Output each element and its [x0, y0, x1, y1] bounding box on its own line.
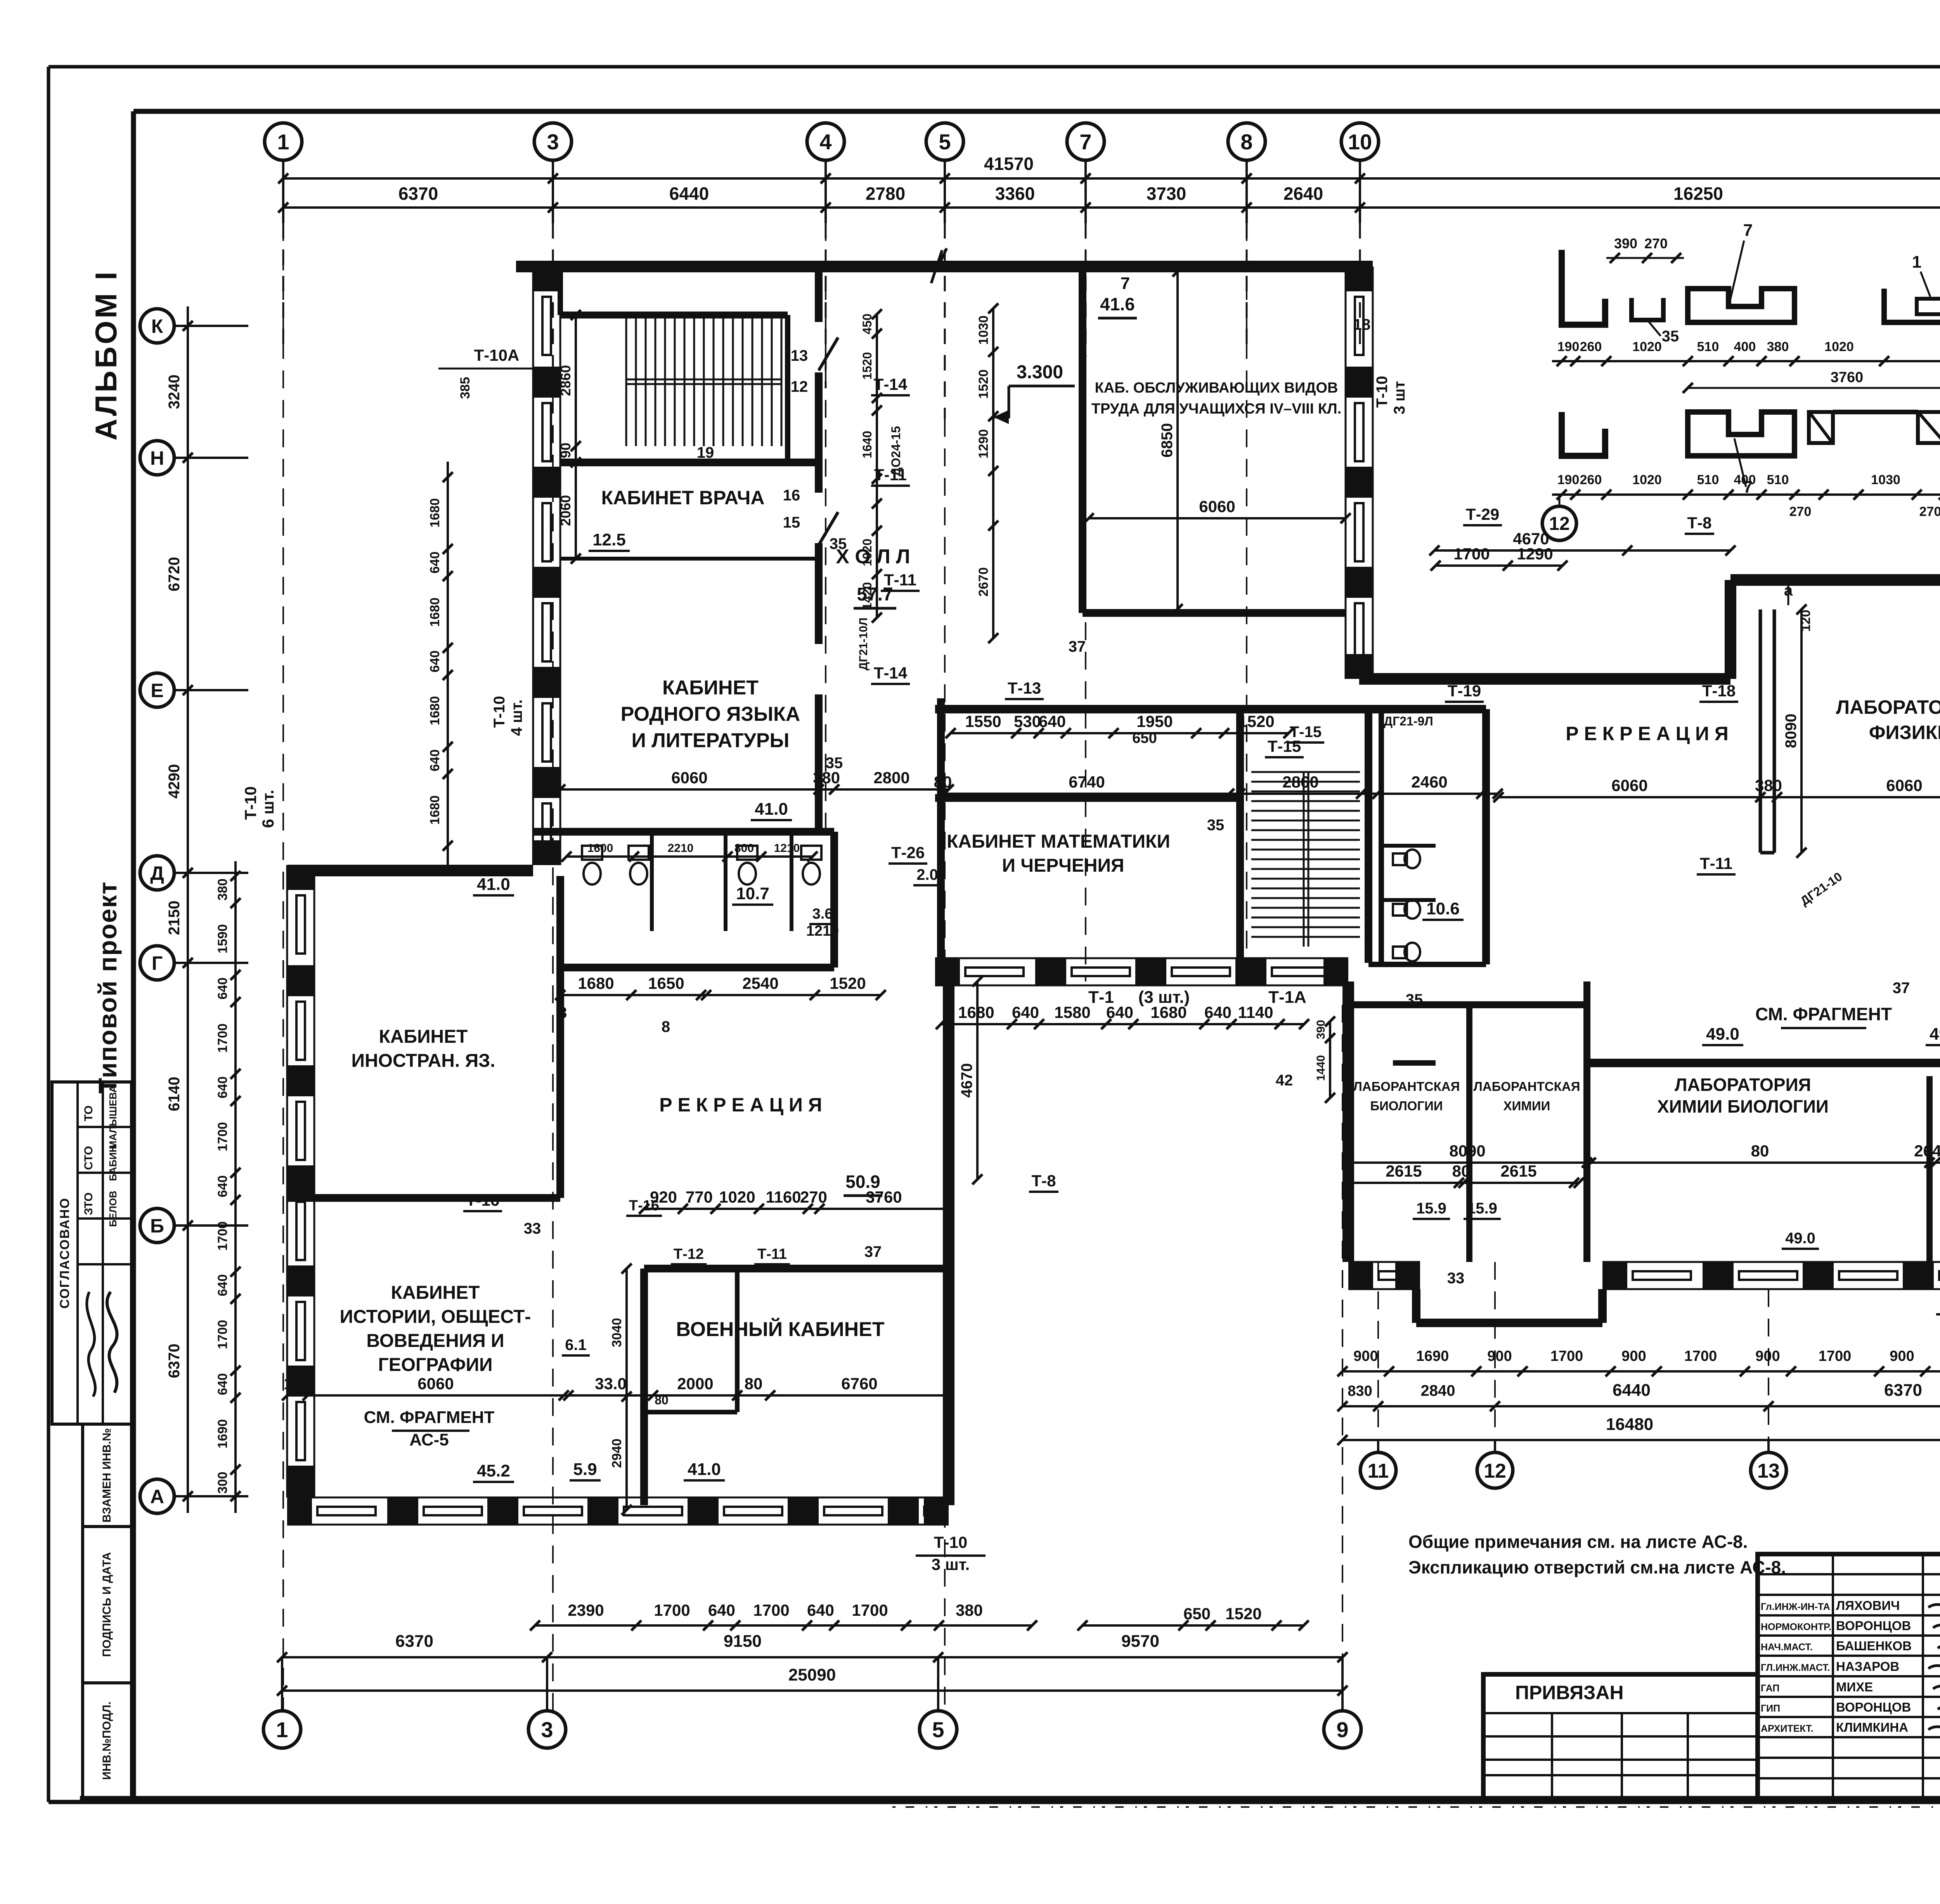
svg-text:НОРМОКОНТР.: НОРМОКОНТР.: [1761, 1622, 1831, 1632]
svg-text:Гл.ИНЖ-ИН-ТА: Гл.ИНЖ-ИН-ТА: [1761, 1601, 1830, 1612]
WC2 partition b: [1381, 898, 1436, 902]
svg-text:80: 80: [1751, 1142, 1769, 1160]
svg-text:Т-15: Т-15: [1290, 724, 1322, 741]
wall: top of лаборантские rooms: [1348, 1001, 1587, 1008]
svg-text:ТО: ТО: [82, 1106, 95, 1122]
dim: лаборантские top offsets: [1329, 1021, 1331, 1098]
grid bubble 5 (top): [926, 123, 963, 160]
grid bubble 3 (bottom): [528, 1711, 566, 1748]
svg-text:8: 8: [558, 1004, 567, 1021]
wall: south corridor of right section: [1587, 1059, 1940, 1067]
svg-text:3.300: 3.300: [1017, 362, 1063, 383]
svg-text:Т-18: Т-18: [1702, 682, 1736, 700]
svg-text:БИОЛОГИИ: БИОЛОГИИ: [1370, 1099, 1443, 1113]
signature scribble: [107, 1292, 117, 1393]
svg-text:ФИЗИКИ: ФИЗИКИ: [1869, 722, 1940, 743]
grid bubble Г (left): [140, 946, 174, 980]
svg-text:1700: 1700: [1819, 1348, 1852, 1364]
svg-text:8: 8: [662, 1018, 670, 1035]
svg-text:390: 390: [1614, 235, 1637, 251]
svg-text:41.0: 41.0: [688, 1460, 721, 1479]
svg-text:(3 шт.): (3 шт.): [1138, 988, 1190, 1007]
svg-text:380: 380: [956, 1601, 983, 1619]
svg-text:АРХИТЕКТ.: АРХИТЕКТ.: [1761, 1723, 1814, 1734]
svg-text:Т-1А: Т-1А: [1268, 988, 1306, 1007]
wall: east of stairwell 2: [1365, 709, 1372, 963]
grid bubble К (left): [140, 309, 174, 343]
svg-text:15: 15: [783, 514, 800, 531]
top dimension line (total 41570): [283, 177, 1940, 180]
wall: east of WC block (left): [830, 832, 838, 968]
svg-text:190: 190: [1557, 339, 1580, 354]
svg-text:Т-10: Т-10: [934, 1533, 967, 1551]
svg-text:1950: 1950: [1136, 712, 1173, 730]
svg-text:ПРИВЯЗАН: ПРИВЯЗАН: [1515, 1682, 1624, 1703]
svg-text:640: 640: [708, 1601, 735, 1619]
dim: courtyard height: [976, 981, 979, 1179]
svg-text:1520: 1520: [976, 369, 991, 399]
wall: west of кабинет математики: [937, 698, 945, 958]
svg-text:35: 35: [1207, 817, 1225, 834]
exterior wall: small south protrusion: [1598, 1289, 1607, 1323]
svg-text:1: 1: [277, 130, 289, 154]
svg-text:33.0: 33.0: [595, 1374, 627, 1393]
svg-text:2670: 2670: [976, 567, 991, 597]
svg-text:1680: 1680: [428, 696, 442, 725]
grid bubble 11 (bottom right): [1360, 1452, 1396, 1488]
svg-text:13: 13: [791, 347, 808, 364]
svg-text:1600: 1600: [587, 842, 613, 855]
exterior wall with windows: south wall of middle section (Т-1 band): [935, 957, 1348, 959]
dim line under 2 этаж detail: [1552, 360, 1940, 362]
svg-text:1640: 1640: [860, 431, 874, 458]
svg-text:2000: 2000: [677, 1374, 713, 1393]
title block: signature table: [1758, 1554, 1940, 1798]
svg-text:Р Е К Р Е А Ц И Я: Р Е К Р Е А Ц И Я: [1566, 723, 1729, 744]
svg-text:2615: 2615: [1386, 1162, 1422, 1180]
svg-text:6440: 6440: [669, 183, 709, 204]
svg-text:15.9: 15.9: [1467, 1200, 1497, 1217]
svg-text:35: 35: [1406, 991, 1423, 1008]
svg-text:НАЗАРОВ: НАЗАРОВ: [1836, 1659, 1899, 1674]
drawing frame bottom: [80, 1796, 1940, 1801]
svg-text:1520: 1520: [1225, 1605, 1261, 1623]
vertical dim column right of upper-left block: [876, 314, 878, 618]
svg-text:4: 4: [819, 130, 831, 154]
left secondary dim column: [234, 861, 237, 1513]
svg-text:35: 35: [1662, 328, 1679, 345]
svg-text:1680: 1680: [578, 974, 614, 992]
svg-text:1690: 1690: [215, 1419, 230, 1449]
svg-text:7: 7: [1743, 221, 1753, 240]
sheet outer border left: [47, 67, 50, 1802]
svg-text:640: 640: [1039, 712, 1066, 730]
svg-text:2390: 2390: [568, 1601, 604, 1619]
svg-text:11: 11: [1368, 1460, 1389, 1482]
svg-text:2060: 2060: [558, 495, 573, 526]
dim: военный west heights: [625, 1269, 628, 1510]
svg-text:1700: 1700: [1453, 545, 1490, 563]
svg-text:Р Е К Р Е А Ц И Я: Р Е К Р Е А Ц И Я: [659, 1094, 822, 1116]
dim small right: [1436, 564, 1562, 567]
svg-text:770: 770: [686, 1188, 713, 1206]
svg-text:2640: 2640: [1914, 1142, 1940, 1160]
svg-text:5.9: 5.9: [573, 1460, 597, 1479]
svg-text:10: 10: [1348, 130, 1372, 154]
wall: лаборантская химии / лаборатория: [1583, 981, 1590, 1262]
svg-text:50.9: 50.9: [845, 1172, 880, 1192]
exterior wall: top facade of upper-left/middle blocks: [516, 261, 1373, 272]
svg-text:400: 400: [1734, 339, 1756, 354]
svg-text:1020: 1020: [1632, 339, 1662, 354]
svg-text:2.0: 2.0: [916, 866, 938, 883]
svg-text:Б: Б: [150, 1215, 164, 1237]
svg-text:6850: 6850: [1159, 423, 1176, 458]
svg-text:41.6: 41.6: [1100, 294, 1135, 314]
svg-text:ТРУДА ДЛЯ УЧАЩИХСЯ IV–VIII КЛ.: ТРУДА ДЛЯ УЧАЩИХСЯ IV–VIII КЛ.: [1091, 401, 1342, 417]
svg-text:6140: 6140: [166, 1077, 183, 1111]
svg-text:1550: 1550: [965, 712, 1001, 730]
svg-text:Типовой проект: Типовой проект: [93, 881, 122, 1094]
svg-text:Т-12: Т-12: [674, 1246, 704, 1262]
exterior wall with windows: west facade of left wing: [286, 865, 288, 1497]
svg-text:Т-26: Т-26: [891, 843, 925, 862]
svg-text:530: 530: [1014, 712, 1041, 730]
svg-text:390: 390: [1315, 1020, 1327, 1039]
svg-text:1020: 1020: [1632, 473, 1662, 487]
svg-text:1290: 1290: [1517, 545, 1553, 563]
dim: right section widths: [1498, 796, 1940, 798]
svg-text:5: 5: [932, 1717, 944, 1742]
svg-text:9: 9: [1336, 1717, 1348, 1742]
svg-text:900: 900: [1890, 1348, 1914, 1364]
svg-text:АС-5: АС-5: [409, 1430, 449, 1449]
svg-text:1520: 1520: [860, 352, 874, 379]
svg-text:41.0: 41.0: [477, 875, 510, 894]
svg-text:1210: 1210: [806, 923, 839, 939]
svg-text:6370: 6370: [166, 1344, 183, 1378]
svg-text:3 шт: 3 шт: [1391, 381, 1408, 414]
dim: каб.обслуживающих width: [1089, 517, 1346, 519]
svg-text:80: 80: [745, 1374, 763, 1393]
svg-text:ИСТОРИИ, ОБЩЕСТ-: ИСТОРИИ, ОБЩЕСТ-: [340, 1307, 531, 1327]
svg-text:12: 12: [791, 378, 808, 395]
svg-text:ДО24-15: ДО24-15: [889, 426, 903, 476]
svg-text:640: 640: [807, 1601, 834, 1619]
svg-text:2840: 2840: [1421, 1382, 1455, 1399]
svg-text:3: 3: [547, 130, 559, 154]
svg-text:1520: 1520: [830, 974, 866, 992]
dim line under 1 этаж detail: [1552, 493, 1940, 496]
dim: лаборантские widths: [1348, 1182, 1579, 1184]
wall: top of военный кабинет: [644, 1265, 949, 1272]
wall: лаборатория / лаборант.физики: [1926, 1076, 1933, 1262]
svg-text:3760: 3760: [1831, 369, 1864, 386]
svg-text:3.6: 3.6: [812, 906, 833, 922]
svg-text:2860: 2860: [1282, 773, 1318, 791]
svg-text:6.1: 6.1: [565, 1336, 587, 1354]
dim: военный top band: [644, 1208, 949, 1210]
svg-text:СТО: СТО: [82, 1146, 95, 1170]
grid bubble 12 (bottom right): [1477, 1452, 1513, 1488]
svg-text:Т-16: Т-16: [629, 1198, 659, 1214]
svg-text:650: 650: [1132, 730, 1157, 746]
wall: лаборантская биологии / химии: [1466, 1005, 1472, 1262]
svg-text:640: 640: [215, 1373, 230, 1395]
wall: south of каб.обслуживающих: [1083, 609, 1346, 617]
svg-text:2540: 2540: [742, 974, 778, 992]
wall: between кабинет иностран and рекреация: [556, 876, 564, 1198]
dim: partition height right section: [1800, 609, 1803, 853]
exterior wall with windows: east wall of каб.обслуживающих: [1345, 267, 1347, 679]
partition below кабинет врача: [560, 557, 819, 561]
svg-text:1290: 1290: [976, 429, 991, 459]
exterior wall: west wall of labs row: [1342, 981, 1354, 1262]
svg-text:800: 800: [734, 842, 754, 855]
grid dashed lines through plan: [282, 223, 284, 1711]
svg-text:49.0: 49.0: [1930, 1025, 1940, 1044]
svg-text:9150: 9150: [724, 1632, 762, 1651]
svg-text:41.0: 41.0: [755, 800, 788, 819]
grid bubble Б (left): [140, 1208, 174, 1243]
dim: 4670 right section top: [1434, 549, 1730, 552]
svg-text:80: 80: [1452, 1162, 1471, 1180]
svg-text:И ЧЕРЧЕНИЯ: И ЧЕРЧЕНИЯ: [1002, 855, 1124, 876]
bottom dim row (window dims left building): [535, 1624, 1032, 1627]
svg-text:Х О Л Л: Х О Л Л: [836, 545, 910, 568]
svg-text:БАШЕНКОВ: БАШЕНКОВ: [1836, 1639, 1912, 1653]
svg-text:Т-29: Т-29: [1466, 505, 1499, 523]
svg-text:Т-11: Т-11: [757, 1246, 787, 1262]
svg-text:35: 35: [826, 755, 843, 772]
break mark on top wall: [931, 248, 947, 283]
svg-text:И ЛИТЕРАТУРЫ: И ЛИТЕРАТУРЫ: [632, 729, 790, 752]
svg-text:640: 640: [1204, 1003, 1232, 1021]
svg-text:640: 640: [215, 978, 230, 1000]
svg-text:16480: 16480: [1606, 1415, 1653, 1434]
svg-text:37: 37: [1069, 638, 1086, 655]
svg-text:КЛИМКИНА: КЛИМКИНА: [1836, 1720, 1908, 1734]
svg-text:Т-16: Т-16: [466, 1191, 499, 1209]
svg-text:ИНВ.№ПОДЛ.: ИНВ.№ПОДЛ.: [100, 1701, 113, 1780]
svg-text:35: 35: [830, 535, 847, 552]
exterior wall: top of right section (west part): [1359, 673, 1730, 685]
drawing frame top: [133, 109, 1940, 114]
svg-text:640: 640: [428, 552, 442, 574]
left dimension column (letter spacing dims): [187, 306, 189, 1513]
svg-text:КАБИНЕТ: КАБИНЕТ: [391, 1283, 480, 1303]
svg-text:ЛАБОРАТОРИЯ: ЛАБОРАТОРИЯ: [1675, 1075, 1811, 1095]
svg-text:1650: 1650: [648, 974, 684, 992]
svg-text:1030: 1030: [1871, 473, 1900, 487]
svg-text:Т-14: Т-14: [874, 664, 908, 682]
svg-text:120: 120: [1798, 610, 1813, 632]
dim: WC partitions: [566, 855, 812, 858]
wall: stair1 west vestibule: [558, 267, 563, 315]
svg-text:1020: 1020: [719, 1188, 755, 1206]
svg-text:12: 12: [1484, 1460, 1506, 1482]
grid bubble 10 (top): [1341, 123, 1379, 160]
dim: left wing widths: [560, 788, 949, 791]
svg-text:Т-1: Т-1: [1088, 988, 1114, 1007]
svg-text:Т-10: Т-10: [491, 696, 508, 728]
svg-text:6 шт.: 6 шт.: [259, 790, 277, 828]
bottom dim row (6370 | 9150 | 9570): [282, 1656, 1342, 1658]
WC partition 3: [790, 832, 793, 931]
svg-text:3240: 3240: [166, 375, 183, 409]
svg-text:1210: 1210: [774, 842, 800, 855]
dim: WC row widths: [560, 994, 881, 996]
svg-text:Е: Е: [151, 680, 163, 701]
svg-text:5: 5: [939, 130, 951, 154]
grid bubble 5 (bottom): [920, 1711, 957, 1748]
svg-text:300: 300: [215, 1472, 230, 1494]
svg-text:ГЛ.ИНЖ.МАСТ.: ГЛ.ИНЖ.МАСТ.: [1761, 1662, 1830, 1673]
svg-text:42: 42: [1276, 1072, 1293, 1089]
svg-text:СМ. ФРАГМЕНТ: СМ. ФРАГМЕНТ: [364, 1408, 495, 1427]
sheet outer border top: [48, 65, 1940, 69]
svg-text:3040: 3040: [610, 1318, 624, 1347]
svg-text:КАБИНЕТ ВРАЧА: КАБИНЕТ ВРАЧА: [601, 487, 765, 509]
svg-text:1520: 1520: [1238, 712, 1274, 730]
svg-text:1690: 1690: [1416, 1348, 1449, 1364]
svg-text:16: 16: [783, 487, 800, 504]
wall: between кабинет иностран and кабинет истории: [287, 1194, 560, 1202]
svg-text:КАБИНЕТ: КАБИНЕТ: [662, 677, 759, 699]
svg-text:Т-11: Т-11: [1700, 854, 1732, 872]
WC fixtures middle block: [1393, 853, 1407, 865]
speckle line under title block: [892, 1806, 1940, 1808]
svg-text:Т-8: Т-8: [1687, 514, 1712, 532]
svg-text:8090: 8090: [1782, 714, 1800, 748]
svg-text:900: 900: [1487, 1348, 1512, 1364]
svg-text:650: 650: [1183, 1605, 1211, 1623]
sheet outer border bottom: [48, 1800, 1940, 1804]
grid bubble 1 (top): [265, 123, 302, 160]
svg-text:2460: 2460: [1411, 773, 1447, 791]
svg-text:6370: 6370: [395, 1632, 433, 1651]
grid bubble Е (left): [140, 673, 174, 707]
dim: каб.обслуживающих height: [1176, 272, 1179, 609]
wall: WC2 west: [1379, 709, 1384, 964]
exterior wall with windows: south facade of left wing: [287, 1497, 949, 1499]
svg-text:49.0: 49.0: [1785, 1230, 1815, 1247]
svg-text:Д: Д: [150, 862, 164, 884]
svg-text:ВОРОНЦОВ: ВОРОНЦОВ: [1836, 1700, 1911, 1714]
svg-text:СМ. ФРАГМЕНТ: СМ. ФРАГМЕНТ: [1755, 1004, 1892, 1024]
svg-text:Т-19: Т-19: [1448, 682, 1481, 700]
svg-text:ЛЯХОВИЧ: ЛЯХОВИЧ: [1836, 1598, 1900, 1613]
svg-text:450: 450: [860, 313, 874, 334]
grid bubble 8 (top): [1228, 123, 1265, 160]
svg-text:45.2: 45.2: [477, 1461, 510, 1480]
svg-text:900: 900: [1353, 1348, 1378, 1364]
svg-text:НАЧ.МАСТ.: НАЧ.МАСТ.: [1761, 1642, 1813, 1653]
svg-text:640: 640: [428, 749, 442, 772]
svg-text:10.7: 10.7: [736, 884, 769, 903]
svg-text:6720: 6720: [166, 557, 183, 592]
svg-text:1700: 1700: [753, 1601, 789, 1619]
svg-text:ИНОСТРАН. ЯЗ.: ИНОСТРАН. ЯЗ.: [352, 1051, 495, 1071]
svg-text:4670: 4670: [958, 1063, 975, 1098]
WC partition 1: [650, 832, 654, 931]
svg-text:СОГЛАСОВАНО: СОГЛАСОВАНО: [57, 1198, 72, 1309]
svg-text:ХИМИИ БИОЛОГИИ: ХИМИИ БИОЛОГИИ: [1657, 1096, 1829, 1116]
svg-text:1700: 1700: [215, 1023, 230, 1053]
svg-text:1700: 1700: [1684, 1348, 1717, 1364]
svg-text:6740: 6740: [1069, 773, 1105, 791]
dim: stair block heights: [575, 315, 577, 559]
wall: between рекреация and лаборатория физики (double partition): [1759, 609, 1762, 853]
exterior wall: top of right section (east part): [1730, 574, 1940, 586]
svg-text:400: 400: [1734, 473, 1756, 487]
grid bubble 3 (top): [534, 123, 572, 160]
svg-text:ГАП: ГАП: [1761, 1683, 1779, 1694]
wall: north of stairwell 1: [560, 312, 788, 318]
grid bubble 4 (top): [807, 123, 844, 160]
svg-text:15.9: 15.9: [1416, 1200, 1446, 1217]
WC partition 2: [724, 832, 727, 931]
dim: corridor doors middle section: [951, 732, 1289, 734]
svg-text:7: 7: [1079, 130, 1091, 154]
WC fixtures (toilets) left block: [582, 846, 602, 860]
svg-text:1580: 1580: [1054, 1003, 1090, 1021]
svg-text:1440: 1440: [1315, 1055, 1327, 1081]
svg-text:25090: 25090: [788, 1665, 836, 1684]
exterior wall with windows: west facade of upper-left block: [532, 267, 534, 865]
svg-text:КАБ. ОБСЛУЖИВАЮЩИХ ВИДОВ: КАБ. ОБСЛУЖИВАЮЩИХ ВИДОВ: [1095, 380, 1338, 396]
svg-text:1680: 1680: [428, 795, 442, 825]
svg-text:МАЛЫШЕВА: МАЛЫШЕВА: [107, 1085, 119, 1149]
svg-text:ДГ21-10Л: ДГ21-10Л: [857, 618, 870, 670]
drawing frame left: [131, 111, 136, 1798]
svg-text:2800: 2800: [873, 769, 909, 787]
svg-text:3 шт.: 3 шт.: [932, 1555, 970, 1573]
svg-text:РОДНОГО ЯЗЫКА: РОДНОГО ЯЗЫКА: [621, 703, 800, 725]
top dimension line (grid segments): [283, 206, 1940, 209]
bottom-right window dim row: [1342, 1370, 1940, 1373]
exterior wall: east wall of военный кабинет: [943, 981, 954, 1505]
svg-text:3730: 3730: [1147, 183, 1186, 204]
dim: left wing bottom widths: [287, 1394, 949, 1397]
svg-text:2150: 2150: [166, 901, 183, 935]
svg-text:41570: 41570: [984, 154, 1034, 174]
svg-text:270: 270: [1919, 504, 1940, 519]
grid bubble 9 (bottom): [1324, 1711, 1361, 1748]
svg-text:2860: 2860: [558, 365, 573, 396]
svg-text:260: 260: [1580, 473, 1602, 487]
title block: attachment table (ПРИВЯЗАН): [1483, 1674, 1758, 1798]
svg-text:ГЕОГРАФИИ: ГЕОГРАФИИ: [378, 1355, 492, 1375]
svg-text:2780: 2780: [866, 183, 905, 204]
wall: WC2 bottom: [1368, 962, 1486, 967]
svg-text:КАБИНЕТ МАТЕМАТИКИ: КАБИНЕТ МАТЕМАТИКИ: [947, 831, 1170, 852]
wall: west side of холл (east wall of upper-left block) with door gaps: [815, 267, 823, 322]
svg-text:10.6: 10.6: [1426, 899, 1460, 918]
svg-text:1700: 1700: [654, 1601, 690, 1619]
svg-text:Экспликацию отверстий см.на ли: Экспликацию отверстий см.на листе АС-8.: [1408, 1557, 1786, 1577]
wall: corridor south / кабинет математики top: [935, 794, 1240, 802]
svg-text:БЕЛОВ: БЕЛОВ: [107, 1191, 119, 1227]
grid lines (dashed) from top bubbles into plan: [282, 223, 284, 349]
svg-text:1590: 1590: [215, 924, 230, 954]
WC2 partition a: [1381, 844, 1436, 848]
svg-text:380: 380: [215, 879, 230, 901]
svg-text:1700: 1700: [852, 1601, 888, 1619]
svg-text:830: 830: [1348, 1383, 1372, 1399]
wall: west of военный кабинет: [640, 1269, 648, 1505]
svg-text:Т-11: Т-11: [884, 571, 916, 589]
